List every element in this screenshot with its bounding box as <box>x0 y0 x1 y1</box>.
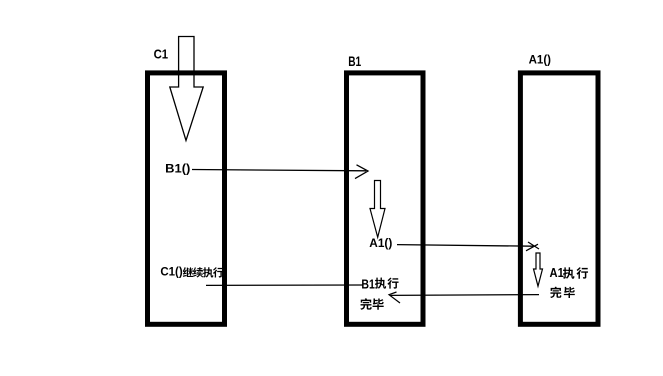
arrowhead A1() call stroke 1 <box>528 242 539 249</box>
glyph 执 of C1 row <box>203 267 213 277</box>
arrowhead return A1 to B1 <box>389 292 400 303</box>
svg-text:B1: B1 <box>361 276 375 291</box>
outline arrow inside A1 <box>534 253 543 286</box>
glyph 毕 of A1完毕 <box>564 287 575 298</box>
glyph 执 of A1执行 <box>563 267 575 278</box>
svg-text:B1: B1 <box>348 54 361 69</box>
glyph 行 of A1执行 <box>576 267 588 278</box>
outline arrow inside B1 <box>370 181 385 238</box>
svg-text:C1: C1 <box>154 46 169 61</box>
wire B1() call line <box>192 170 366 171</box>
wire return A1 to B1 <box>391 294 540 297</box>
svg-text:A1(): A1() <box>369 236 392 250</box>
glyph 继 <box>183 267 193 277</box>
wire return B1 to C1 <box>206 284 363 286</box>
svg-text:C1(): C1() <box>160 265 182 279</box>
lifeline box A1 <box>520 73 598 324</box>
arrowhead A1() call stroke 2 <box>526 244 538 251</box>
lifeline box B1 <box>347 73 424 324</box>
glyph 行 of C1 row <box>213 267 223 277</box>
glyph 续 <box>193 267 203 277</box>
big outline arrow into C1 <box>170 37 203 141</box>
glyph 执 of B1执行 <box>375 278 386 289</box>
svg-text:A1(): A1() <box>529 52 551 66</box>
arrowhead B1() call <box>355 165 368 179</box>
svg-text:A1: A1 <box>550 266 564 280</box>
glyph 行 of B1执行 <box>387 278 398 289</box>
wire A1() call line <box>397 245 533 247</box>
glyph 完 of A1完毕 <box>550 287 561 298</box>
glyph 完 of B1完毕 <box>360 298 371 310</box>
lifeline box C1 <box>148 73 225 324</box>
glyph 毕 of B1完毕 <box>373 298 384 309</box>
svg-text:B1(): B1() <box>165 162 190 176</box>
